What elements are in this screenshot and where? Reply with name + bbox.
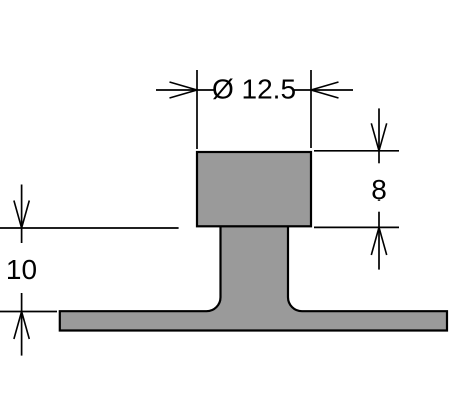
dimension 8: dimension line lower segment bbox=[378, 212, 380, 270]
svg-text:Ø 12.5: Ø 12.5 bbox=[212, 74, 296, 105]
dimension 10: top arrow barbs bbox=[14, 201, 29, 229]
dimension 10: bottom arrow barbs bbox=[14, 312, 29, 340]
dimension 8: bottom extension line bbox=[314, 226, 399, 228]
part: stem and base plate silhouette bbox=[60, 226, 447, 331]
dimension Ø 12.5: left extension line bbox=[196, 70, 198, 149]
dimension 8: top arrow barbs bbox=[371, 123, 386, 151]
dimension Ø 12.5: dimension line right segment with outside tail bbox=[293, 89, 353, 91]
svg-text:10: 10 bbox=[6, 254, 37, 285]
dimension 8: top extension line bbox=[314, 150, 399, 152]
dimension 8: dimension line speck below label bbox=[378, 200, 380, 201]
svg-text:8: 8 bbox=[371, 174, 387, 205]
dimension Ø 12.5: right arrow barbs bbox=[311, 82, 339, 98]
dimension Ø 12.5: dimension line left segment with outside tail bbox=[156, 89, 214, 91]
dimension 10: dimension line lower segment bbox=[21, 293, 23, 356]
dimension 10: dimension line upper segment bbox=[21, 185, 23, 244]
dimension 8: dimension line upper segment bbox=[378, 108, 380, 163]
dimension Ø 12.5: right extension line bbox=[310, 70, 312, 148]
dimension 10: top extension line bbox=[0, 227, 179, 229]
part: head block bbox=[197, 152, 311, 226]
dimension Ø 12.5: left arrow barbs bbox=[170, 82, 198, 98]
dimension 10: bottom extension line bbox=[0, 311, 57, 313]
dimension 8: bottom arrow barbs bbox=[371, 227, 386, 255]
